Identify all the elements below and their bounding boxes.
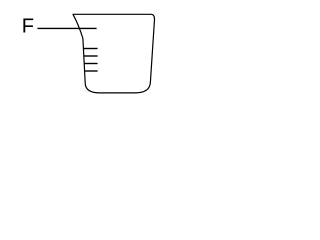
graduation tick 2 xyxy=(84,55,98,57)
svg-text:F: F xyxy=(22,15,34,37)
graduation tick 4 xyxy=(85,70,98,72)
graduation tick 3 xyxy=(84,63,97,65)
leader line from F to cup xyxy=(37,27,96,29)
measuring cup outline xyxy=(73,14,155,93)
graduation tick 1 xyxy=(83,48,97,50)
